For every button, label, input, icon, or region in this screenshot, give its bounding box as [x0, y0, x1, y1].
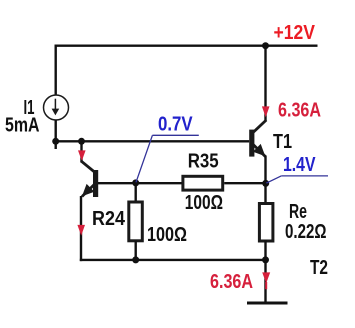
svg-text:T2: T2 [310, 257, 328, 279]
wire node down to Re [264, 183, 266, 203]
wire R24 bottom lead [134, 241, 136, 260]
junction R24 to bottom rail [132, 256, 139, 263]
wire Q2 emitter down leg [80, 196, 82, 261]
current arrow to ground [262, 272, 270, 289]
transistor Q2 emitter diagonal with arrow [82, 184, 95, 197]
svg-text:1.4V: 1.4V [283, 154, 316, 176]
junction bottom rail to ground leg [262, 256, 269, 263]
wire I1 bottom lead with stub below junction [55, 120, 57, 150]
wire ground leg [264, 260, 266, 303]
wire top rail from I1 to +12V lead [55, 45, 318, 47]
ground [247, 302, 288, 305]
node 0.7V junction [132, 179, 139, 186]
resistor R24 body [129, 202, 143, 241]
current source I1 [44, 95, 69, 120]
transistor T1 collector diagonal [253, 120, 266, 133]
svg-text:0.22Ω: 0.22Ω [285, 221, 327, 243]
svg-text:6.36A: 6.36A [278, 99, 321, 121]
node 1.4V junction [262, 180, 269, 187]
wire R35 to node 1.4V [224, 182, 265, 184]
svg-text:+12V: +12V [274, 22, 316, 44]
junction at I1 output [52, 138, 59, 145]
svg-text:5mA: 5mA [5, 115, 40, 137]
resistor Re body [259, 204, 273, 242]
resistor R35 body [183, 176, 223, 190]
current arrow into T1 collector [262, 106, 270, 117]
svg-text:6.36A: 6.36A [210, 271, 253, 293]
wire T1 emitter down to node [264, 156, 266, 184]
wire Q2 collector branch down [80, 141, 82, 162]
net label 1.4V [266, 154, 328, 183]
junction at Q2 branch [78, 138, 85, 145]
svg-text:100Ω: 100Ω [185, 192, 223, 214]
wire middle rail to T1 base [55, 140, 250, 142]
svg-text:Re: Re [289, 201, 307, 223]
current arrow in Q2 emitter leg [77, 225, 85, 236]
transistor Q2 (left, base bar) [93, 170, 98, 197]
transistor T1 base bar [249, 130, 254, 157]
svg-text:R35: R35 [188, 151, 219, 173]
wire Q2 base to R35 [98, 182, 182, 184]
transistor Q2 collector diagonal [81, 161, 95, 172]
svg-text:100Ω: 100Ω [147, 224, 187, 246]
current arrow into Q2 collector [78, 150, 86, 161]
transistor T1 emitter diagonal with arrow [253, 144, 265, 157]
wire left vertical from top rail to I1 [55, 45, 57, 96]
wire bottom rail [80, 259, 266, 261]
wire Re bottom lead [264, 241, 266, 260]
svg-text:0.7V: 0.7V [158, 113, 193, 135]
net label 0.7V [136, 113, 199, 182]
wire T1 collector vertical [264, 46, 266, 121]
svg-text:R24: R24 [92, 208, 126, 230]
junction top rail to T1 collector [262, 42, 269, 49]
wire node down to R24 [134, 183, 136, 201]
svg-text:T1: T1 [273, 131, 292, 153]
